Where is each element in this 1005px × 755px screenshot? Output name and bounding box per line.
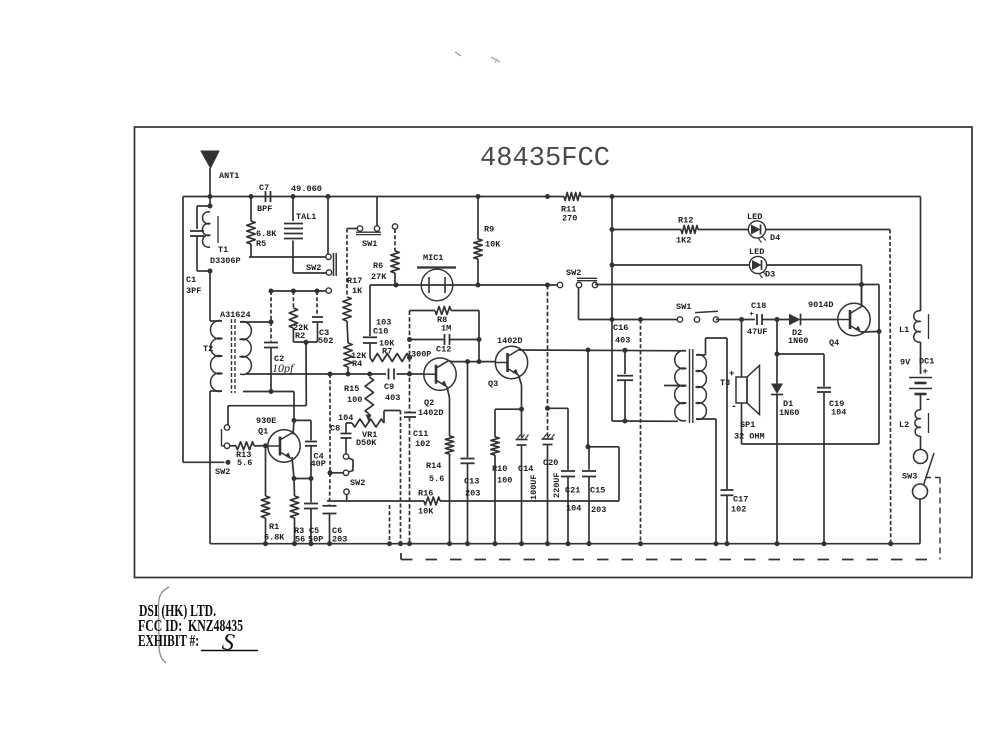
capacitor C17 102 xyxy=(726,338,728,489)
svg-text:9V: 9V xyxy=(900,358,911,368)
svg-text:10K: 10K xyxy=(418,507,434,517)
junction: R5 top xyxy=(249,194,254,199)
resistor R11 270 (series in top rail) xyxy=(564,193,581,201)
svg-text:C7: C7 xyxy=(259,183,269,193)
wire: D4 rail down xyxy=(889,230,892,544)
svg-text:T1: T1 xyxy=(218,245,228,255)
resistor R15 100 (to VR1 wiper) xyxy=(365,377,373,414)
wire: Q2 emitter / R14 xyxy=(447,387,450,398)
wire: emitter bias net xyxy=(495,408,522,410)
svg-text:102: 102 xyxy=(415,439,430,449)
resistor R2 22K xyxy=(292,291,294,308)
svg-text:D3306P: D3306P xyxy=(210,256,241,266)
resistor R4 12K xyxy=(347,321,348,343)
svg-text:SW1: SW1 xyxy=(362,239,377,249)
svg-text:R16: R16 xyxy=(418,489,433,499)
wire: C20 rail xyxy=(547,285,549,437)
wire: mic row left corner down xyxy=(369,285,371,336)
inductor L2 xyxy=(915,410,921,436)
transistor Q3 1402D xyxy=(495,346,527,378)
svg-text:270: 270 xyxy=(562,214,577,224)
svg-text:C15: C15 xyxy=(590,486,605,496)
svg-text:-: - xyxy=(731,402,737,413)
wire: transformer bottom return xyxy=(612,420,678,422)
inductor L1 xyxy=(914,311,921,343)
switch SW1 (PTT) xyxy=(677,317,682,322)
svg-text:R17: R17 xyxy=(347,276,362,286)
junction: antenna / top rail xyxy=(208,194,213,199)
svg-text:104: 104 xyxy=(338,413,353,423)
svg-text:100: 100 xyxy=(497,476,512,486)
svg-text:L1: L1 xyxy=(899,325,909,335)
transformer T2 (right winding) xyxy=(240,322,251,375)
microphone MIC1 xyxy=(421,269,453,301)
resistor R6 27K xyxy=(392,224,397,229)
junction: x410 / ground bus xyxy=(407,541,412,546)
wire: collector node to C4 xyxy=(294,419,311,421)
wire: Q3 collector row to transformer xyxy=(519,349,686,352)
speaker SP1 32 OHM xyxy=(741,320,743,378)
resistor R16 10K xyxy=(424,497,440,505)
junction: R4 / base row xyxy=(346,372,351,377)
svg-text:EXHIBIT #:: EXHIBIT #: xyxy=(138,631,199,650)
contact SW2b lower + wire from left rail xyxy=(183,461,225,463)
resistor R14 5.6 xyxy=(449,398,451,436)
wire: Q1 emitter down xyxy=(292,457,294,479)
junction: C16 top / collector row xyxy=(623,348,628,353)
wire: TX row to output stage xyxy=(595,284,879,286)
wire: C18 to D2 xyxy=(762,319,789,321)
svg-text:1K2: 1K2 xyxy=(676,236,691,246)
junction: Q1 base / R1 xyxy=(263,443,268,448)
svg-text:+: + xyxy=(750,311,754,319)
diode D1 1N60 xyxy=(776,354,778,384)
wire: battery rail down right side xyxy=(920,197,922,312)
junction: x330 rail top xyxy=(328,372,333,377)
wire: Q1 collector xyxy=(293,420,294,434)
svg-text:R2: R2 xyxy=(295,331,305,341)
svg-text:R15: R15 xyxy=(344,384,359,394)
svg-text:10pf: 10pf xyxy=(272,361,295,375)
capacitor C20 220UF (electrolytic) xyxy=(542,438,554,440)
capacitor C21 104 xyxy=(567,408,569,470)
svg-text:220UF: 220UF xyxy=(552,472,562,498)
capacitor C9 403 (series) xyxy=(388,369,390,380)
svg-text:DC1: DC1 xyxy=(919,357,934,367)
svg-text:C13: C13 xyxy=(464,477,479,487)
svg-text:Q2: Q2 xyxy=(424,398,434,408)
svg-text:SW2: SW2 xyxy=(215,467,230,477)
capacitor C14 100UF (electrolytic) xyxy=(521,409,523,437)
resistor R7 10K xyxy=(370,354,410,362)
svg-text:C14: C14 xyxy=(518,464,533,474)
wire: D1/C19 top net xyxy=(776,320,778,355)
wire: ground bus xyxy=(210,543,920,545)
svg-text:BPF: BPF xyxy=(257,204,272,214)
wire: VR1 right to x400 rail xyxy=(383,411,385,424)
svg-text:R14: R14 xyxy=(426,461,441,471)
junction: Q4 emitter / rail xyxy=(877,329,882,334)
wire: SW2c lower to R16 row xyxy=(346,494,348,501)
transformer core xyxy=(689,349,691,423)
svg-text:102: 102 xyxy=(731,505,746,515)
junction: Q1 collector node xyxy=(292,418,297,423)
ground plane dashed line xyxy=(400,553,402,560)
svg-text:R12: R12 xyxy=(678,216,693,226)
svg-text:100: 100 xyxy=(347,395,362,405)
capacitor C18 47UF xyxy=(756,314,758,325)
wire: T2 left bottom to ground xyxy=(209,391,211,544)
wire: T1 branch xyxy=(209,197,211,207)
wire: C15 top net xyxy=(588,446,619,448)
dashed link SW3 to ground plane xyxy=(925,477,940,479)
wire: D2 to Q4 base xyxy=(801,319,839,321)
svg-text:203: 203 xyxy=(465,489,480,499)
svg-text:D4: D4 xyxy=(770,233,780,243)
svg-text:100UF: 100UF xyxy=(529,474,539,500)
svg-text:MIC1: MIC1 xyxy=(423,253,443,263)
junction: R9 top xyxy=(476,194,481,199)
resistor R3 56 xyxy=(293,479,296,497)
wire: Q2 collector to Q3 base xyxy=(449,360,453,363)
capacitor C10 103 xyxy=(363,336,377,338)
wire: LED D3 row xyxy=(612,264,750,266)
svg-text:403: 403 xyxy=(615,336,630,346)
junction: speaker feed xyxy=(739,317,744,322)
wire: SW2d drop to RX row xyxy=(578,287,580,320)
svg-text:D50K: D50K xyxy=(356,438,377,448)
wire: R16 row xyxy=(327,500,424,502)
wire: LED feed rail xyxy=(611,197,613,422)
svg-text:A31624: A31624 xyxy=(220,310,251,320)
wire: x410 rail xyxy=(409,311,411,412)
switch SW2d (mic/TX) xyxy=(557,282,562,287)
svg-text:LED: LED xyxy=(749,247,764,257)
wire: SW3 to ground bus xyxy=(919,499,921,544)
capacitor C3 502 xyxy=(316,291,318,316)
junction: R7 / x410 rail xyxy=(407,355,412,360)
wire: battery to L2 xyxy=(920,394,922,410)
transistor Q4 9014D xyxy=(838,303,870,335)
resistor R13 5.6 xyxy=(228,445,236,447)
transformer T4 primary (left winding) xyxy=(675,351,686,421)
junction: rail at LED feed xyxy=(610,194,615,199)
svg-text:1N60: 1N60 xyxy=(779,408,799,418)
wire: C2 bottom / T2 return xyxy=(243,391,294,393)
svg-text:C16: C16 xyxy=(613,323,628,333)
LED D4 xyxy=(748,221,765,238)
wire: keying rail x330 xyxy=(329,374,331,473)
junction: C12 row left xyxy=(407,337,412,342)
resistor R17 1K xyxy=(346,229,348,298)
wire: x400 rail to ground xyxy=(400,411,402,544)
resistor R5 6.8K xyxy=(250,197,252,222)
svg-text:6.8K: 6.8K xyxy=(264,533,285,543)
wire: L1 to battery xyxy=(920,342,922,374)
transistor Q1 930E xyxy=(268,430,300,462)
junction: D3 drop / TX row xyxy=(859,282,864,287)
junction: C13 top xyxy=(465,359,470,364)
svg-text:5.6: 5.6 xyxy=(429,474,444,484)
svg-text:104: 104 xyxy=(831,408,846,418)
capacitor C6 203 xyxy=(329,473,332,505)
wire: T1 to T2 xyxy=(209,271,211,321)
antenna ANT1 xyxy=(201,151,219,168)
svg-text:3PF: 3PF xyxy=(186,286,201,296)
svg-text:1M: 1M xyxy=(441,324,451,334)
diode D2 1N60 xyxy=(789,314,801,326)
svg-text:10K: 10K xyxy=(485,240,501,250)
svg-text:SW2: SW2 xyxy=(566,268,581,278)
svg-text:SW2: SW2 xyxy=(306,263,321,273)
svg-text:C11: C11 xyxy=(413,429,428,439)
switch SW2b xyxy=(224,425,229,430)
svg-text:ANT1: ANT1 xyxy=(219,171,239,181)
junction: D4 rail / ground bus xyxy=(888,541,893,546)
wire: Q3 emitter xyxy=(519,375,522,385)
junction: C1/T1 bottom xyxy=(208,269,213,274)
capacitor C15 203 xyxy=(588,447,590,470)
potentiometer VR1 D50K xyxy=(352,419,384,427)
svg-text:R1: R1 xyxy=(269,522,279,532)
svg-text:C9: C9 xyxy=(384,382,394,392)
capacitor C5 50P xyxy=(310,479,312,503)
svg-text:300P: 300P xyxy=(411,350,431,360)
svg-text:R4: R4 xyxy=(352,359,362,369)
wire: crystal bottom net xyxy=(249,256,328,258)
svg-text:1K: 1K xyxy=(352,286,363,296)
svg-text:T3: T3 xyxy=(720,378,730,388)
junction: R15 top xyxy=(367,372,372,377)
wire: Q4 collector up xyxy=(861,285,863,307)
svg-text:T2: T2 xyxy=(203,344,213,354)
svg-text:R6: R6 xyxy=(373,261,383,271)
svg-text:203: 203 xyxy=(591,505,606,515)
wire: C16 rail xyxy=(640,320,642,544)
svg-text:6.8K: 6.8K xyxy=(256,229,277,239)
capacitor C8 xyxy=(346,422,352,424)
svg-text:R5: R5 xyxy=(256,239,266,249)
transformer T4 secondary (right winding) xyxy=(696,355,706,420)
wire: D3 row down to Q4 collector xyxy=(861,265,863,306)
svg-text:403: 403 xyxy=(385,393,400,403)
capacitor C4 40P xyxy=(310,420,312,440)
svg-text:47UF: 47UF xyxy=(747,327,767,337)
wire: R2/C3 top net xyxy=(271,290,326,292)
junction: C16 bottom xyxy=(623,419,628,424)
svg-text:+: + xyxy=(923,367,928,377)
junction: C16 rail tap xyxy=(638,317,643,322)
wire: SW1 to C18 xyxy=(716,319,755,321)
svg-text:49.060: 49.060 xyxy=(291,184,322,194)
capacitor C1 3PF xyxy=(196,206,198,229)
capacitor C11 102 xyxy=(404,412,416,414)
wire: feedback drop to SW2b xyxy=(305,342,307,405)
capacitor C2 10PF xyxy=(270,291,272,342)
junction: C16 rail / ground bus xyxy=(638,541,643,546)
switch SW2a (xtal select) xyxy=(326,254,331,259)
schematic sheet border xyxy=(135,127,973,578)
svg-text:C12: C12 xyxy=(436,345,451,355)
junction: base row / x410 rail xyxy=(407,372,412,377)
svg-text:C1: C1 xyxy=(186,275,196,285)
wire: output stage box bottom xyxy=(742,443,880,445)
svg-text:1402D: 1402D xyxy=(497,336,523,346)
svg-text:SW3: SW3 xyxy=(902,472,917,482)
wire: Q4 emitter to rail xyxy=(861,331,879,334)
svg-text:C17: C17 xyxy=(733,495,748,505)
svg-text:502: 502 xyxy=(318,336,333,346)
svg-text:Q1: Q1 xyxy=(258,427,268,437)
svg-text:D3: D3 xyxy=(765,270,775,280)
wire: R8/C12 right rail xyxy=(478,311,480,362)
svg-text:9014D: 9014D xyxy=(808,300,834,310)
resistor R8 1M xyxy=(410,310,436,312)
wire: R2/C3 bottom net xyxy=(293,341,317,343)
svg-text:C10: C10 xyxy=(373,327,388,337)
wire: RX audio row xyxy=(579,319,678,321)
scan smudge marks near title xyxy=(455,52,461,56)
svg-text:930E: 930E xyxy=(256,416,276,426)
svg-text:R10: R10 xyxy=(492,464,507,474)
svg-text:R9: R9 xyxy=(484,225,494,235)
svg-text:Q4: Q4 xyxy=(829,338,839,348)
resistor R1 6.8K xyxy=(265,446,267,496)
svg-text:C8: C8 xyxy=(330,424,340,434)
LED D3 xyxy=(749,256,766,273)
wire: +9V top rail xyxy=(183,196,564,198)
transformer T2 (left winding) xyxy=(210,320,222,322)
svg-text:SW1: SW1 xyxy=(676,302,691,312)
junction: R9 / mic row xyxy=(476,283,481,288)
junction: T2 top-right / C2 xyxy=(269,320,274,325)
svg-text:TAL1: TAL1 xyxy=(296,212,316,222)
wire: emitter / C4 bottom net xyxy=(294,478,311,480)
svg-text:104: 104 xyxy=(566,504,581,514)
svg-text:C21: C21 xyxy=(565,486,580,496)
junction: C21 branch xyxy=(545,406,550,411)
resistor R9 10K xyxy=(477,197,479,240)
transistor Q2 1402D xyxy=(424,358,456,390)
capacitor C19 104 xyxy=(823,354,825,387)
svg-text:L2: L2 xyxy=(899,420,909,430)
contact SW2c lower xyxy=(344,489,349,494)
svg-text:-: - xyxy=(925,395,931,406)
wire: LED D4 row xyxy=(612,229,681,231)
switch SW3 (power) xyxy=(920,436,922,449)
svg-text:SW2: SW2 xyxy=(350,478,365,488)
switch SW2c xyxy=(343,454,348,459)
capacitor C7 (BPF) xyxy=(265,191,267,202)
svg-text:C20: C20 xyxy=(543,458,558,468)
svg-text:1N60: 1N60 xyxy=(788,336,808,346)
capacitor C12 xyxy=(410,339,444,341)
svg-text:5.6: 5.6 xyxy=(237,458,252,468)
wire: oscillator output row xyxy=(246,373,386,375)
svg-text:27K: 27K xyxy=(371,272,387,282)
junction: crystal top xyxy=(291,194,296,199)
junction: SW2c / keying rail xyxy=(328,470,333,475)
exhibit underline xyxy=(201,650,258,652)
junction: SW2a top feed xyxy=(326,194,331,199)
wire: R16 row up to C15 net xyxy=(618,447,620,501)
crystal TAL1 49.060 xyxy=(292,197,294,222)
transformer T2 core xyxy=(231,319,233,393)
wire: Q3 collector drop xyxy=(587,350,589,447)
resistor R10 100 xyxy=(494,409,496,437)
svg-text:Q3: Q3 xyxy=(488,379,498,389)
svg-text:48435FCC: 48435FCC xyxy=(480,143,610,173)
wire: secondary bottom to ground xyxy=(715,419,717,544)
wire: x389 rail to ground xyxy=(389,505,391,544)
svg-text:SP1: SP1 xyxy=(740,420,755,430)
svg-text:32 OHM: 32 OHM xyxy=(734,432,765,442)
switch SW1 (left) xyxy=(347,228,358,230)
capacitor C16 403 xyxy=(624,350,626,374)
svg-text:C18: C18 xyxy=(751,301,766,311)
wire: mic row xyxy=(370,284,557,286)
capacitor C13 203 xyxy=(467,362,469,458)
page crease line xyxy=(159,587,170,663)
svg-text:1402D: 1402D xyxy=(418,408,444,418)
wire: left rail xyxy=(182,197,184,463)
junction: R6 / mic row xyxy=(394,283,399,288)
inductor T1 (osc coil) xyxy=(202,212,210,248)
wire: SW1 to top rail xyxy=(376,197,378,227)
svg-text:LED: LED xyxy=(747,212,762,222)
junction: C20 rail / mic row xyxy=(545,283,550,288)
junction: rail at R11 left xyxy=(545,194,550,199)
svg-text:40P: 40P xyxy=(311,459,326,469)
resistor R12 1K2 xyxy=(681,226,698,234)
